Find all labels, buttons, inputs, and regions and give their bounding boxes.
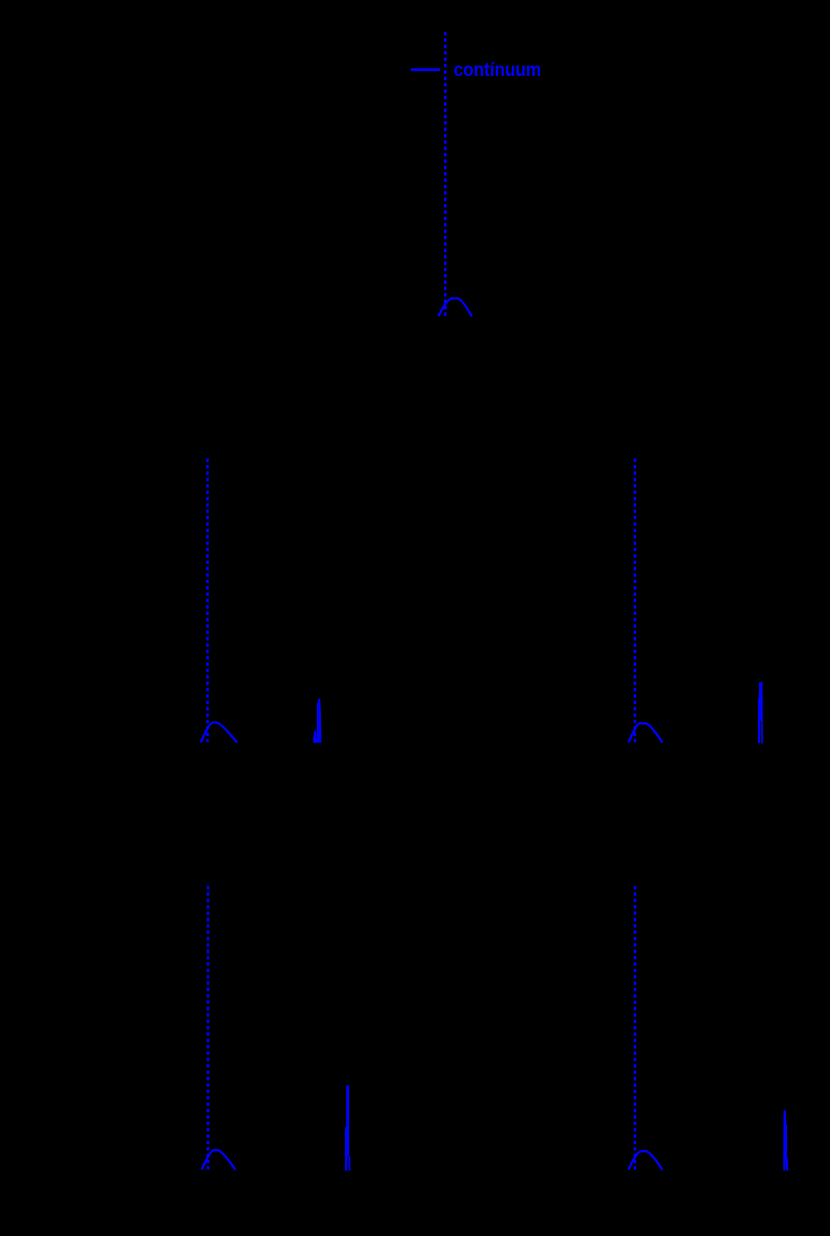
thermal line profile arc, middle-right panel [629, 723, 663, 742]
maser spike, bottom-right panel [783, 1110, 788, 1170]
dotted line middle-left panel [206, 459, 209, 743]
dotted line top (systemic velocity, continuum panel) [444, 32, 447, 316]
thermal line profile arc, top panel [438, 298, 471, 316]
svg-text:contínuum: contínuum [454, 59, 541, 81]
thermal line profile arc, bottom-right panel [629, 1151, 663, 1170]
thermal line profile arc, bottom-left panel [202, 1150, 236, 1169]
dotted line middle-right panel [634, 459, 637, 743]
legend key line (continuum) [411, 68, 440, 71]
maser spike, bottom-left panel [345, 1085, 350, 1170]
thermal line profile arc, middle-left panel [201, 723, 237, 743]
dotted line bottom-left panel [207, 886, 210, 1170]
maser spike, middle-left panel [313, 699, 322, 743]
dotted line bottom-right panel [634, 886, 637, 1170]
maser spike, middle-right panel [758, 682, 763, 743]
